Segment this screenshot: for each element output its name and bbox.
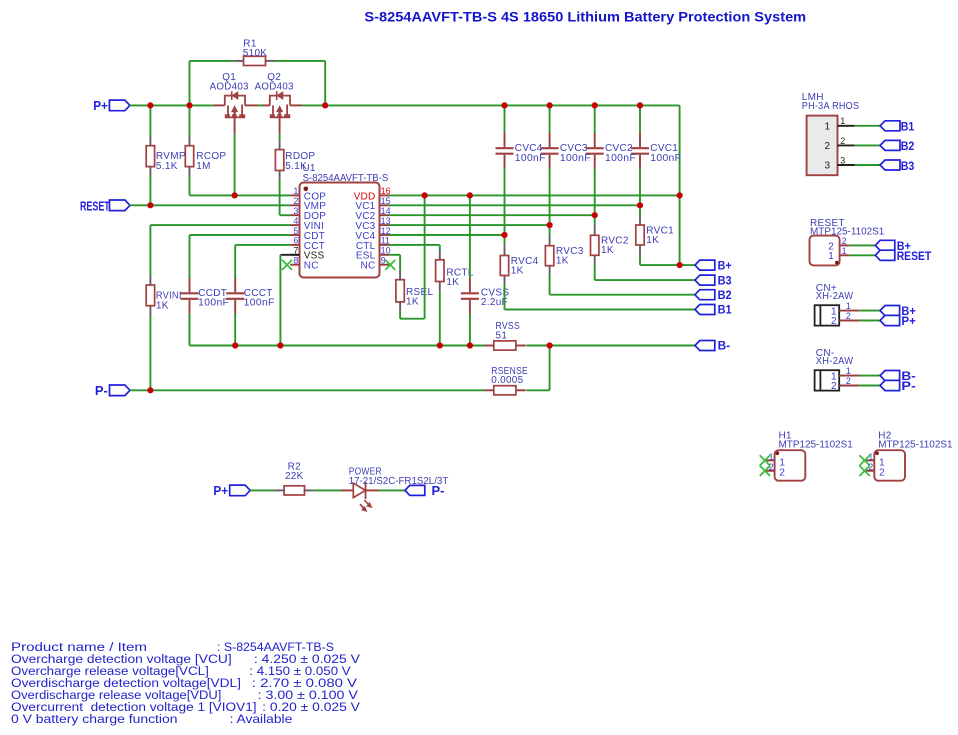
junction at 424.6,195.4 xyxy=(422,192,428,198)
junction at 504.5,105.4 xyxy=(501,102,507,108)
hierarchical label B2 xyxy=(695,290,732,302)
capacitor CCCT xyxy=(226,277,275,346)
junction at 549.6,225.1 xyxy=(547,222,553,228)
svg-text:B2: B2 xyxy=(718,290,732,302)
junction at 469.9,195.4 xyxy=(467,192,473,198)
U1 pin 8 no-connect cross xyxy=(282,260,292,270)
hierarchical label B1 xyxy=(695,305,732,317)
svg-text:1K: 1K xyxy=(511,265,524,276)
U1 pin 15 VC1 xyxy=(355,196,390,212)
connector LMH PH-3A RHOS xyxy=(802,92,860,175)
svg-text:RESET: RESET xyxy=(897,251,932,263)
svg-text:S-8254AAVFT-TB-S: S-8254AAVFT-TB-S xyxy=(303,173,389,184)
U1 pin 5 CDT xyxy=(290,226,325,242)
svg-text:100nF: 100nF xyxy=(650,153,681,164)
svg-text:5.1K: 5.1K xyxy=(156,161,178,172)
U1 pin 3 DOP xyxy=(290,206,326,222)
svg-text:100nF: 100nF xyxy=(605,153,636,164)
wire VC3 net xyxy=(389,224,550,226)
junction at 325.2,105.4 xyxy=(322,102,328,108)
svg-text:1K: 1K xyxy=(601,245,614,256)
wire Q1 gate to COP xyxy=(234,134,236,196)
svg-text:1K: 1K xyxy=(446,277,459,288)
wire VINI net xyxy=(150,224,290,226)
svg-text:B3: B3 xyxy=(901,161,915,173)
hierarchical label RESET xyxy=(80,198,130,213)
resistor RVMP xyxy=(146,105,186,205)
svg-text:5: 5 xyxy=(293,226,298,236)
svg-text:0 V battery charge function: 0 V battery charge function xyxy=(11,712,178,726)
svg-text:1: 1 xyxy=(879,457,885,468)
svg-text:22K: 22K xyxy=(285,471,304,482)
junction at 150.4,205.3 xyxy=(147,202,153,208)
wire R2 to LED xyxy=(314,489,340,491)
wire ESL net xyxy=(389,255,400,270)
svg-text:11: 11 xyxy=(381,236,390,246)
hierarchical label P- (left) xyxy=(95,383,130,398)
connector RESET MTP125-1102S1 xyxy=(810,218,885,266)
svg-text:2: 2 xyxy=(824,141,830,152)
U1 pin 10 ESL xyxy=(356,246,391,262)
wire B2 net xyxy=(550,294,695,296)
junction at 594.7,105.4 xyxy=(592,102,598,108)
U1 pin 12 VC4 xyxy=(355,226,390,242)
capacitor CVC3 xyxy=(541,105,591,225)
svg-text:NC: NC xyxy=(304,261,319,272)
resistor RVC2 xyxy=(591,215,629,280)
junction at 469.9,345.5 xyxy=(467,342,473,348)
hierarchical label B3 xyxy=(880,160,914,173)
resistor RDOP xyxy=(275,134,315,181)
svg-text:B-: B- xyxy=(718,341,731,353)
svg-text:3: 3 xyxy=(840,155,845,165)
svg-text:1: 1 xyxy=(846,366,851,376)
wire R1 right branch xyxy=(275,61,325,106)
U1 pin 6 CCT xyxy=(290,236,325,252)
svg-text:1: 1 xyxy=(842,246,847,256)
U1 pin 1 COP xyxy=(290,186,326,202)
svg-text:2: 2 xyxy=(840,136,845,146)
svg-text:100nF: 100nF xyxy=(198,298,229,309)
U1 pin 9 no-connect cross xyxy=(385,260,395,270)
svg-text:3: 3 xyxy=(824,161,830,172)
svg-text:1: 1 xyxy=(293,186,298,196)
svg-text:100nF: 100nF xyxy=(244,298,275,309)
hierarchical label P+ (CN+) xyxy=(880,315,916,328)
svg-text:1: 1 xyxy=(846,301,851,311)
H1 pin 2 no-connect xyxy=(760,462,786,479)
resistor RSENSE xyxy=(484,366,528,395)
connector CN+ XH-2AW xyxy=(815,283,854,326)
hierarchical label B- (CN-) xyxy=(880,371,916,384)
wire LED to P- xyxy=(379,489,405,491)
junction at 439.8,345.5 xyxy=(437,342,443,348)
svg-text:1M: 1M xyxy=(196,161,211,172)
capacitor CVSS xyxy=(461,195,509,345)
resistor RSEL xyxy=(396,270,434,312)
wire VSS net xyxy=(280,255,299,346)
svg-text:AOD403: AOD403 xyxy=(255,82,294,93)
junction at 594.7,215.2 xyxy=(592,212,598,218)
svg-text:51: 51 xyxy=(496,331,508,342)
U1 pin 7 VSS xyxy=(290,246,324,262)
hierarchical label B2 xyxy=(880,140,914,153)
svg-text:0.0005: 0.0005 xyxy=(491,375,523,386)
connector CN- XH-2AW xyxy=(815,348,854,391)
junction at 504.5,235.0 xyxy=(501,232,507,238)
svg-text:RESET: RESET xyxy=(80,198,110,213)
wire CDT net xyxy=(190,235,291,278)
resistor RVC3 xyxy=(545,225,583,295)
wire R1 left branch xyxy=(190,61,234,136)
hierarchical label B1 xyxy=(880,121,915,134)
U1 pin 14 VC2 xyxy=(355,206,390,222)
capacitor CCDT xyxy=(181,277,230,346)
svg-text:100nF: 100nF xyxy=(560,153,591,164)
LED POWER 17-21/S2C-FR1S2L/3T xyxy=(341,466,449,511)
junction at 679.6,195.4 xyxy=(677,192,683,198)
wire CTL net xyxy=(389,245,440,250)
hierarchical label P+ xyxy=(93,98,130,113)
wire VSS bus xyxy=(190,315,695,346)
wire DOP net xyxy=(280,180,291,215)
transistor Q2 xyxy=(262,91,302,134)
wire RSENSE branch xyxy=(526,346,549,391)
wire RESET to VMP xyxy=(130,204,290,206)
hierarchical label B+ (CN+) xyxy=(880,306,916,319)
hierarchical label RESET (RESET connector) xyxy=(875,250,931,263)
junction at 235.2,345.5 xyxy=(232,342,238,348)
svg-text:1: 1 xyxy=(840,116,845,126)
svg-text:2: 2 xyxy=(293,196,298,206)
svg-text:B1: B1 xyxy=(718,305,733,317)
capacitor CVC4 xyxy=(496,105,546,235)
H2 pin 1 no-connect xyxy=(859,452,885,469)
svg-text:6: 6 xyxy=(293,236,298,246)
junction at 234.6,195.4 xyxy=(232,192,238,198)
svg-text:MTP125-1102S1: MTP125-1102S1 xyxy=(779,439,854,450)
resistor R2 xyxy=(274,461,314,495)
svg-text:2: 2 xyxy=(879,468,885,479)
RESET connector pin 1 xyxy=(828,246,875,262)
LMH pin 1 xyxy=(824,116,880,132)
svg-text:1K: 1K xyxy=(156,300,169,311)
svg-text:P+: P+ xyxy=(901,316,916,328)
CN- pin 1 xyxy=(831,366,880,382)
svg-text:P-: P- xyxy=(901,381,916,393)
op-amp U1 S-8254AAVFT-TB-S body xyxy=(300,163,389,278)
wire COP net xyxy=(190,194,291,196)
svg-text:510K: 510K xyxy=(243,48,268,59)
svg-text:1: 1 xyxy=(779,457,785,468)
hierarchical label P- (CN-) xyxy=(880,380,916,393)
svg-text:B2: B2 xyxy=(901,141,915,153)
U1 pin 4 VINI xyxy=(290,216,324,232)
wire B+ net xyxy=(640,264,695,266)
svg-text:PH-3A RHOS: PH-3A RHOS xyxy=(802,101,860,112)
junction at 280.4,345.5 xyxy=(277,342,283,348)
U1 pin 8 NC xyxy=(290,256,319,272)
wire B3 net xyxy=(595,279,695,281)
capacitor CVC2 xyxy=(586,105,636,215)
CN+ pin 2 xyxy=(831,311,880,327)
hierarchical label B3 xyxy=(695,275,732,287)
resistor RVC1 xyxy=(636,205,674,265)
svg-text:8: 8 xyxy=(293,256,298,266)
CN+ pin 1 xyxy=(831,301,880,317)
svg-text:MTP125-1102S1: MTP125-1102S1 xyxy=(810,227,885,238)
svg-text:1K: 1K xyxy=(646,235,659,246)
wire B1 net xyxy=(505,309,695,311)
svg-text:1: 1 xyxy=(824,121,830,132)
junction at 640.0,205.3 xyxy=(637,202,643,208)
resistor R1 xyxy=(234,39,276,66)
resistor RVSS xyxy=(484,321,526,350)
svg-text:P-: P- xyxy=(95,383,108,398)
capacitor CVC1 xyxy=(631,105,681,205)
junction at 189.5,105.4 xyxy=(186,102,192,108)
svg-text:B3: B3 xyxy=(718,275,732,287)
resistor RCOP xyxy=(185,136,226,196)
U1 pin 2 VMP xyxy=(290,196,326,212)
svg-text:S-8254AAVFT-TB-S 4S 18650 Lith: S-8254AAVFT-TB-S 4S 18650 Lithium Batter… xyxy=(364,10,806,25)
wire P- net xyxy=(130,389,484,391)
junction at 150.4,390.3 xyxy=(147,387,153,393)
svg-text:2: 2 xyxy=(831,381,837,392)
resistor RVC4 xyxy=(500,235,538,310)
resistor RCTL xyxy=(436,250,474,346)
H1 pin 1 no-connect xyxy=(760,452,786,469)
svg-text:NC: NC xyxy=(361,261,376,272)
junction at 549.6,345.5 xyxy=(547,342,553,348)
junction at 640.0,105.4 xyxy=(637,102,643,108)
resistor RVINI xyxy=(146,225,182,390)
svg-text:AOD403: AOD403 xyxy=(210,82,249,93)
svg-text:100nF: 100nF xyxy=(515,153,546,164)
H2 pin 2 no-connect xyxy=(859,462,885,479)
CN- pin 2 xyxy=(831,376,880,392)
svg-text:MTP125-1102S1: MTP125-1102S1 xyxy=(878,439,953,450)
junction at 679.6,265.1 xyxy=(677,262,683,268)
wire VC4 net xyxy=(389,234,505,236)
wire P+ to R2 xyxy=(250,489,274,491)
svg-text:1K: 1K xyxy=(556,256,569,267)
svg-text:: Available: : Available xyxy=(230,712,293,726)
svg-text:B+: B+ xyxy=(718,260,732,272)
wire VC1 net xyxy=(389,204,640,206)
svg-text:2: 2 xyxy=(846,311,851,321)
svg-text:7: 7 xyxy=(293,246,298,256)
hierarchical label P- (LED circuit) xyxy=(405,483,445,498)
specification text block xyxy=(11,640,361,726)
hierarchical label B- xyxy=(695,341,730,353)
wire CCT net xyxy=(235,245,290,278)
junction at 549.6,105.4 xyxy=(547,102,553,108)
hierarchical label P+ (LED circuit) xyxy=(213,483,250,498)
svg-text:1K: 1K xyxy=(406,297,419,308)
wire RSEL to VDD xyxy=(400,195,425,318)
svg-text:P+: P+ xyxy=(213,483,228,498)
hierarchical label B+ xyxy=(695,260,732,272)
svg-text:B1: B1 xyxy=(901,122,915,134)
wire VC2 net xyxy=(389,214,595,216)
svg-text:2: 2 xyxy=(846,376,851,386)
svg-text:3: 3 xyxy=(293,206,298,216)
svg-text:2: 2 xyxy=(842,236,847,246)
svg-text:2: 2 xyxy=(831,316,837,327)
svg-text:4: 4 xyxy=(293,216,298,226)
connector H1 MTP125-1102S1 xyxy=(775,431,854,481)
LMH pin 3 xyxy=(824,155,880,171)
svg-text:2: 2 xyxy=(779,468,785,479)
connector H2 MTP125-1102S1 xyxy=(874,431,953,481)
svg-text:1: 1 xyxy=(828,251,834,262)
svg-text:P+: P+ xyxy=(93,98,108,113)
LMH pin 2 xyxy=(824,136,880,152)
U1 pin 11 CTL xyxy=(356,236,390,252)
U1 pin 16 VDD xyxy=(354,186,391,202)
junction at 150.4,105.4 xyxy=(147,102,153,108)
svg-text:P-: P- xyxy=(432,483,445,498)
RESET connector pin 2 xyxy=(828,236,875,252)
U1 pin 9 NC xyxy=(361,256,389,272)
U1 pin 13 VC3 xyxy=(355,216,390,232)
transistor Q1 xyxy=(213,91,257,134)
wire VDD drop from rail to B+ xyxy=(679,105,681,265)
hierarchical label B+ (RESET connector) xyxy=(875,240,911,253)
wire P+ rail xyxy=(130,104,680,106)
wire VDD net xyxy=(389,194,680,196)
